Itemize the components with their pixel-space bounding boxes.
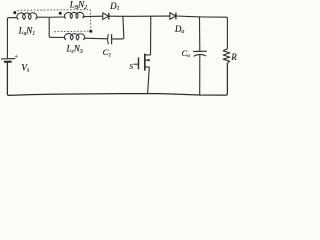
svg-text:+: +: [14, 54, 18, 61]
svg-text:R: R: [230, 52, 237, 62]
svg-text:S: S: [129, 63, 133, 71]
